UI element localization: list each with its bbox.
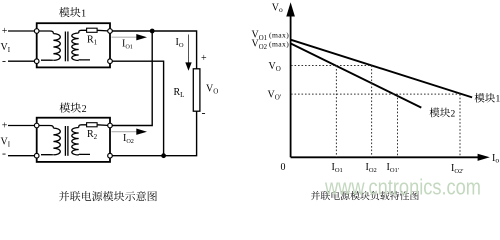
svg-text:1: 1 <box>81 8 86 19</box>
svg-text:-: - <box>2 53 6 67</box>
svg-text:0: 0 <box>281 162 286 173</box>
svg-text:+: + <box>201 53 207 64</box>
svg-text:+: + <box>2 121 8 132</box>
svg-text:www.cntronics.com: www.cntronics.com <box>324 175 481 200</box>
svg-text:-: - <box>2 146 6 160</box>
svg-text:+: + <box>2 26 8 37</box>
svg-text:2: 2 <box>82 104 87 115</box>
svg-text:Vo: Vo <box>272 3 283 14</box>
svg-text:-: - <box>202 106 206 120</box>
svg-text:Io: Io <box>492 153 499 165</box>
svg-text:2: 2 <box>451 109 456 119</box>
svg-text:1: 1 <box>496 95 500 105</box>
